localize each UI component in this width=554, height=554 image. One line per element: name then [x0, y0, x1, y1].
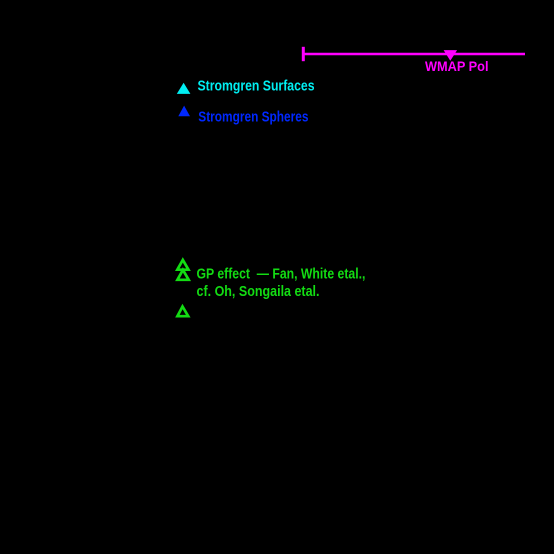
- Stromgren Spheres marker (filled blue triangle): [178, 106, 190, 117]
- svg-text:Stromgren Spheres: Stromgren Spheres: [198, 108, 308, 125]
- svg-text:WMAP Pol: WMAP Pol: [425, 59, 489, 74]
- GP effect marker triangle 2 (open green, lower, overlapping): [177, 270, 188, 280]
- GP effect marker triangle 3 (open green, separate): [177, 307, 188, 317]
- svg-text:Stromgren Surfaces: Stromgren Surfaces: [198, 78, 315, 95]
- Stromgren Surfaces marker (filled cyan triangle): [177, 83, 191, 94]
- WMAP Pol marker (filled down triangle): [444, 50, 458, 61]
- WMAP Pol error bar (horizontal line): [302, 53, 525, 55]
- svg-text:cf. Oh, Songaila etal.: cf. Oh, Songaila etal.: [197, 283, 320, 300]
- svg-text:GP effect — Fan, White etal.,: GP effect — Fan, White etal.,: [197, 266, 366, 283]
- WMAP Pol error bar left cap: [302, 47, 305, 61]
- GP effect marker triangle 1 (open green, upper): [177, 260, 188, 270]
